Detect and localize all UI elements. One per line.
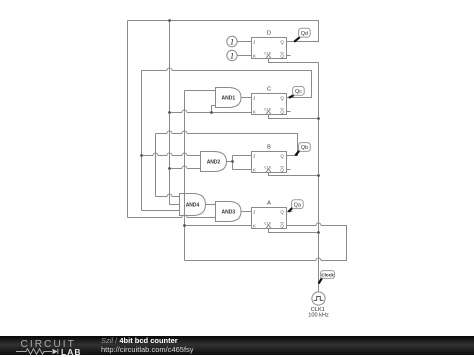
svg-text:Q: Q [280,167,284,172]
svg-text:Q: Q [280,109,284,114]
svg-text:K: K [253,53,256,58]
svg-text:C: C [267,87,271,93]
svg-text:K: K [253,109,256,114]
svg-text:Q: Q [280,223,284,228]
svg-text:CLK: CLK [264,221,272,225]
svg-text:K: K [253,223,256,228]
svg-text:J: J [253,153,255,158]
svg-text:AND4: AND4 [186,203,200,209]
svg-text:Qb: Qb [301,145,308,151]
svg-text:Clock: Clock [321,273,334,278]
svg-text:K: K [253,167,256,172]
svg-text:Qa: Qa [294,202,301,208]
svg-text:D: D [267,31,271,37]
svg-text:1: 1 [230,37,234,47]
svg-text:Q: Q [280,39,284,44]
svg-text:Q: Q [280,209,284,214]
svg-text:Qd: Qd [301,31,308,37]
svg-text:Q: Q [280,95,284,100]
svg-text:J: J [253,39,255,44]
svg-text:1: 1 [230,51,234,61]
svg-text:J: J [253,95,255,100]
svg-text:100 kHz: 100 kHz [308,313,329,319]
svg-text:Qc: Qc [295,89,302,95]
svg-text:B: B [267,145,271,151]
svg-text:CLK: CLK [264,165,272,169]
svg-text:AND3: AND3 [221,210,235,216]
svg-text:AND2: AND2 [207,160,221,166]
svg-text:Q: Q [280,53,284,58]
svg-text:A: A [267,201,271,207]
svg-text:J: J [253,209,255,214]
svg-text:Q: Q [280,153,284,158]
svg-text:AND1: AND1 [221,96,235,102]
svg-text:CLK: CLK [264,51,272,55]
svg-text:CLK: CLK [264,107,272,111]
